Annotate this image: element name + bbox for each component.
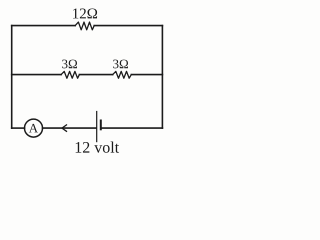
wire: bottom wire, battery to right rail (102, 127, 163, 129)
label: battery voltage 12 volt (76, 141, 119, 152)
wire: left rail (top-left corner to bottom-left corner) (11, 26, 13, 129)
label: 12 ohm value above top resistor (73, 8, 97, 18)
wire: right rail (top-right corner to bottom-right corner) (161, 26, 163, 129)
resistor 12 ohm (zigzag) (75, 22, 94, 30)
label: ammeter letter A inside meter circle (29, 124, 38, 133)
wire: middle wire, second 3-ohm resistor to right rail (131, 74, 162, 76)
wire: bottom wire, left rail to ammeter (12, 127, 25, 129)
label: 3 ohm value above right resistor (113, 60, 128, 69)
resistor 3 ohm (right, zigzag) (113, 71, 132, 78)
wire: middle wire, left rail to first 3-ohm resistor (12, 74, 61, 76)
battery positive plate (long thin line) (96, 112, 98, 142)
current direction arrowhead (pointing left) (62, 125, 67, 131)
ammeter A (circle) (25, 119, 43, 137)
label: 3 ohm value above left resistor (62, 60, 77, 69)
wire: top wire, left of 12-ohm resistor (12, 25, 75, 27)
resistor 3 ohm (left, zigzag) (61, 71, 79, 78)
wire: bottom wire, ammeter to battery (43, 127, 97, 129)
wire: top wire, right of 12-ohm resistor (94, 25, 162, 27)
battery negative plate (short thick line) (100, 121, 102, 130)
wire: middle wire, between 3-ohm resistors (79, 74, 112, 76)
